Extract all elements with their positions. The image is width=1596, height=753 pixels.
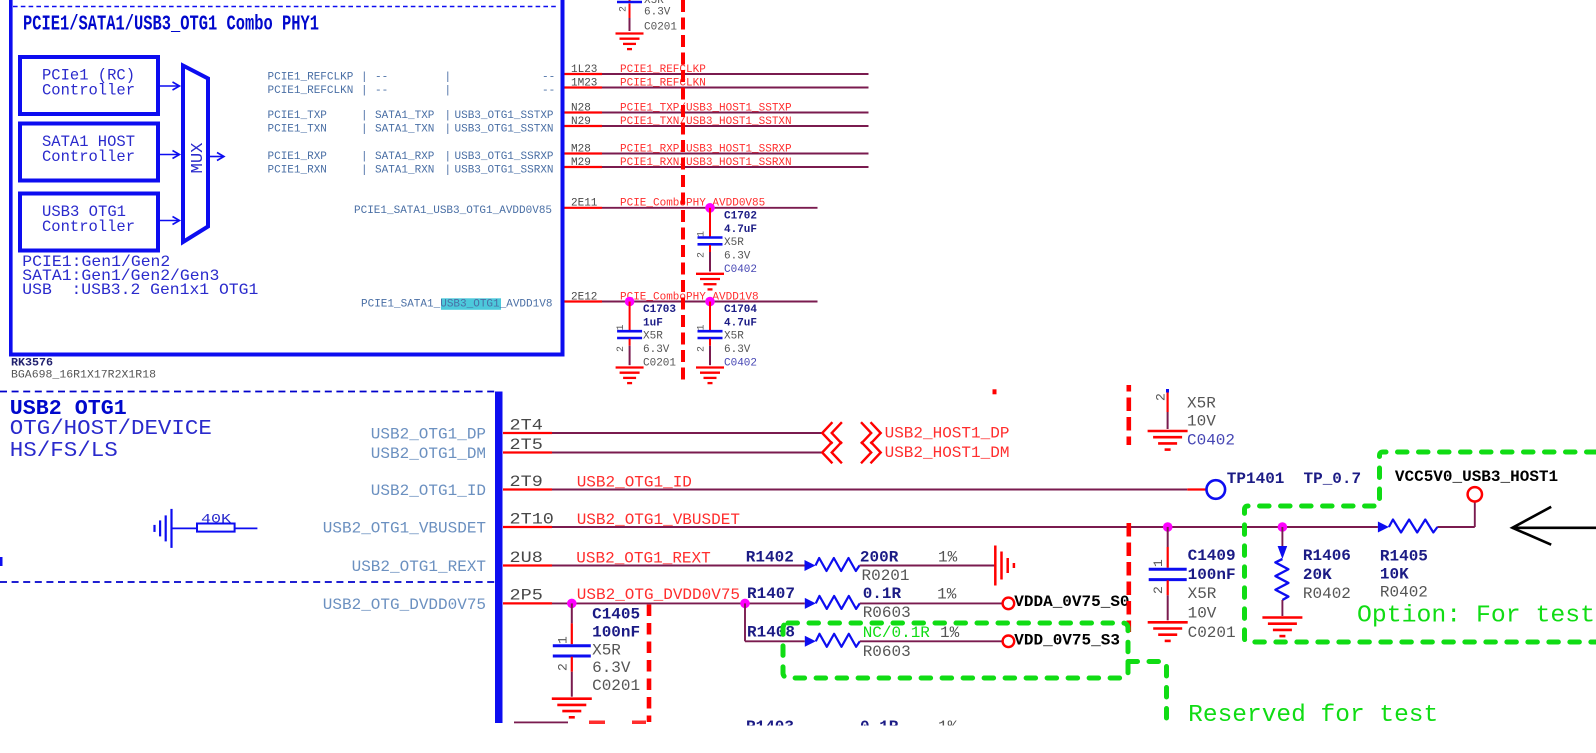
svg-text:PCIE1_SATA1_USB3_OTG1_AVDD0V85: PCIE1_SATA1_USB3_OTG1_AVDD0V85: [354, 205, 552, 217]
wire branch to R1408: [744, 603, 746, 641]
pin N28 net PCIE1_TXP/USB3_HOST1_SSTXP: [565, 102, 869, 114]
svg-text:USB3_OTG1_SSRXN: USB3_OTG1_SSRXN: [455, 164, 554, 176]
resistor R1408 NC/0.1R: [745, 634, 1004, 647]
svg-text:C0402: C0402: [724, 357, 757, 369]
svg-text:C0201: C0201: [1188, 624, 1236, 642]
resistor 40K internal: [172, 511, 258, 531]
red dashed separator top right: [1127, 385, 1132, 445]
capacitor C1704 4.7uF: [697, 302, 723, 366]
wire net USB2_OTG_DVDD0V75: [552, 586, 805, 604]
wire net USB2_OTG1_ID: [552, 474, 1206, 492]
svg-text:100nF: 100nF: [1188, 566, 1236, 584]
svg-text:C0402: C0402: [1187, 431, 1235, 449]
red dashed separator line top: [681, 0, 685, 381]
resistor R1407 0.1R: [805, 596, 1004, 609]
svg-text:C0402: C0402: [724, 264, 757, 276]
svg-text:R1402: R1402: [746, 549, 794, 567]
svg-text:C0201: C0201: [643, 357, 676, 369]
svg-text:R1405: R1405: [1380, 548, 1428, 566]
svg-text:1: 1: [556, 636, 571, 644]
svg-text:2U8: 2U8: [510, 549, 543, 567]
svg-text:--: --: [375, 85, 388, 97]
svg-text:R0201: R0201: [862, 567, 910, 585]
svg-text:R0603: R0603: [863, 643, 911, 661]
svg-text:VCC5V0_USB3_HOST1: VCC5V0_USB3_HOST1: [1395, 468, 1558, 486]
offpage connector USB2_HOST1_DP: [822, 422, 1009, 444]
svg-text:1: 1: [1151, 559, 1166, 567]
labels C1405 100nF X5R 6.3V C0201: [592, 606, 640, 696]
svg-text:USB2_OTG1_VBUSDET: USB2_OTG1_VBUSDET: [323, 519, 486, 537]
svg-text:4.7uF: 4.7uF: [724, 317, 757, 329]
svg-text:SATA1_RXP: SATA1_RXP: [375, 151, 435, 163]
ground below C1405: [552, 697, 592, 700]
svg-text:10V: 10V: [1187, 413, 1216, 431]
svg-text:SATA1_TXN: SATA1_TXN: [375, 123, 434, 135]
wire net USB2_HOST1_DM: [552, 452, 823, 454]
wire SATA1 controller to MUX: [158, 151, 180, 159]
svg-text:USB3_OTG1_SSTXN: USB3_OTG1_SSTXN: [455, 123, 554, 135]
wire USB3 controller to MUX: [158, 217, 180, 225]
svg-text:1: 1: [616, 324, 627, 330]
svg-text:R1406: R1406: [1303, 547, 1351, 565]
svg-text:C1702: C1702: [724, 211, 757, 223]
svg-text:X5R: X5R: [1187, 394, 1216, 412]
capacitor C1409 100nF: [1149, 527, 1187, 620]
svg-text:2: 2: [1154, 393, 1169, 401]
svg-text:R0402: R0402: [1380, 584, 1428, 602]
svg-text:C1703: C1703: [643, 304, 676, 316]
svg-text:USB2_HOST1_DP: USB2_HOST1_DP: [885, 424, 1010, 442]
svg-text:PCIE1_REFCLKP: PCIE1_REFCLKP: [268, 71, 354, 83]
svg-text:2: 2: [1151, 586, 1166, 594]
svg-text:C0201: C0201: [592, 677, 640, 695]
pin 1M23 net PCIE1_REFCLKN: [565, 77, 869, 89]
svg-text:TP1401: TP1401: [1227, 470, 1285, 488]
svg-text:1: 1: [697, 231, 708, 237]
svg-text:|: |: [445, 123, 452, 135]
svg-text:10K: 10K: [1380, 566, 1409, 584]
labels R1408 NC/0.1R 1% R0603: [747, 624, 960, 662]
wire MUX output: [208, 153, 224, 161]
pin 2U8 label USB2_OTG1_REXT: [352, 549, 552, 576]
labels C1704 4.7uF X5R 6.3V C0402: [724, 304, 757, 369]
clipped next row slivers: [514, 718, 958, 736]
analog ground rotated at REXT: [995, 546, 1014, 586]
hierarchical port arrow right: [1512, 507, 1596, 545]
power port VDD_0V75_S3: [1003, 632, 1120, 650]
ground below R1406: [1262, 616, 1302, 619]
svg-text:RK3576: RK3576: [11, 358, 53, 370]
ground below partial capacitor: [1148, 430, 1188, 433]
svg-text:6.3V: 6.3V: [724, 344, 751, 356]
svg-text:PCIE1_RXN: PCIE1_RXN: [268, 164, 327, 176]
junction on 2E11 at C1702: [705, 203, 715, 213]
svg-text:6.3V: 6.3V: [643, 344, 670, 356]
svg-text:SATA1_TXP: SATA1_TXP: [375, 110, 435, 122]
svg-text:USB2_OTG1_DP: USB2_OTG1_DP: [371, 425, 486, 443]
svg-text:USB2_OTG_DVDD0V75: USB2_OTG_DVDD0V75: [323, 596, 486, 614]
block PCIe1 (RC) Controller: [20, 57, 158, 114]
ground below C1704: [696, 366, 724, 368]
resistor R1402 200R: [805, 558, 996, 571]
labels C1702 4.7uF X5R 6.3V C0402: [724, 211, 757, 276]
wire net USB2_HOST1_DP: [552, 432, 823, 434]
svg-text:1uF: 1uF: [643, 317, 663, 329]
svg-text:PCIE1/SATA1/USB3_OTG1 Combo PH: PCIE1/SATA1/USB3_OTG1 Combo PHY1: [23, 14, 319, 37]
svg-text:VDDA_0V75_S0: VDDA_0V75_S0: [1014, 593, 1129, 611]
svg-text:1%: 1%: [938, 549, 958, 567]
svg-text:2: 2: [619, 6, 630, 12]
pin 2P5 label USB2_OTG_DVDD0V75: [323, 587, 552, 614]
svg-text:OTG/HOST/DEVICE: OTG/HOST/DEVICE: [10, 418, 212, 441]
svg-text:C1405: C1405: [592, 606, 640, 624]
note PCIE1:Gen1/Gen2 SATA1:Gen1/Gen2/Gen3 USB:USB3.2 Gen1x1 OTG1: [22, 253, 258, 299]
svg-text:2: 2: [697, 252, 708, 258]
svg-text:BGA698_16R1X17R2X1R18: BGA698_16R1X17R2X1R18: [11, 370, 156, 382]
power port VDDA_0V75_S0: [1003, 593, 1130, 611]
svg-text:--: --: [542, 85, 555, 97]
svg-text:200R: 200R: [860, 549, 899, 567]
svg-text:PCIE1_RXP: PCIE1_RXP: [268, 151, 328, 163]
svg-text:USB2_HOST1_DM: USB2_HOST1_DM: [885, 444, 1010, 462]
svg-text:6.3V: 6.3V: [592, 659, 631, 677]
svg-text:Controller: Controller: [42, 82, 135, 100]
svg-text:MUX: MUX: [189, 143, 208, 174]
wire net USB2_OTG1_VBUSDET: [552, 502, 1475, 529]
wire net USB2_OTG1_REXT: [552, 549, 805, 567]
pin M29 net PCIE1_RXN/USB3_HOST1_SSRXN: [565, 157, 869, 169]
svg-text:X5R: X5R: [724, 237, 744, 249]
svg-text:2T5: 2T5: [510, 436, 543, 454]
junction VBUSDET at R1406: [1278, 522, 1288, 532]
pin 2E12 net PCIE_ComboPHY_AVDD1V8: [565, 291, 818, 303]
svg-text:1: 1: [697, 324, 708, 330]
svg-text:|: |: [361, 164, 368, 176]
svg-text:PCIE1_TXN: PCIE1_TXN: [268, 123, 327, 135]
svg-text:2T9: 2T9: [510, 473, 543, 491]
ground below C1703: [616, 366, 644, 368]
pin 2E11 net PCIE_ComboPHY_AVDD0V85: [565, 198, 818, 210]
ground rotated for 40K pulldown: [155, 509, 172, 548]
svg-text:USB :USB3.2 Gen1x1 OTG1: USB :USB3.2 Gen1x1 OTG1: [22, 281, 258, 299]
svg-text:X5R: X5R: [724, 331, 744, 343]
partial capacitor C0402 top right: [1154, 389, 1236, 449]
pin 2T10 label USB2_OTG1_VBUSDET: [323, 510, 554, 537]
labels C1703 1uF X5R 6.3V C0201: [643, 304, 676, 369]
svg-text:Reserved for test: Reserved for test: [1188, 702, 1438, 729]
svg-text:PCIE1_TXP: PCIE1_TXP: [268, 110, 328, 122]
svg-text:2P5: 2P5: [510, 587, 543, 605]
svg-text:SATA1_RXN: SATA1_RXN: [375, 164, 434, 176]
svg-text:|: |: [445, 85, 452, 97]
ground below C1409: [1148, 621, 1188, 624]
labels R1406 20K R0402: [1303, 547, 1351, 603]
pin 2T4 label USB2_OTG1_DP: [371, 416, 552, 443]
power port VCC5V0_USB3_HOST1: [1395, 468, 1558, 501]
svg-text:C0201: C0201: [644, 22, 677, 34]
svg-text:R0402: R0402: [1303, 585, 1351, 603]
svg-text:Controller: Controller: [42, 148, 135, 166]
svg-text:|: |: [361, 85, 368, 97]
svg-text:R0603: R0603: [863, 604, 911, 622]
svg-text:2: 2: [556, 663, 571, 671]
svg-text:|: |: [445, 151, 452, 163]
svg-text:4.7uF: 4.7uF: [724, 224, 757, 236]
svg-text:C1704: C1704: [724, 304, 757, 316]
pin 2T5 label USB2_OTG1_DM: [371, 436, 552, 463]
svg-text:X5R: X5R: [1188, 585, 1217, 603]
green dashed box Option For test: [1245, 452, 1596, 642]
svg-text:R1408: R1408: [747, 624, 795, 642]
red dashed separator mid right: [1127, 523, 1132, 632]
pin M28 net PCIE1_RXP/USB3_HOST1_SSRXP: [565, 143, 869, 155]
junction DVDD0V75 at R1408 branch: [740, 599, 750, 609]
svg-text:USB2_OTG1_REXT: USB2_OTG1_REXT: [352, 558, 486, 576]
offpage connector USB2_HOST1_DM: [822, 442, 1009, 464]
svg-text:VDD_0V75_S3: VDD_0V75_S3: [1014, 632, 1120, 650]
svg-text:|: |: [361, 151, 368, 163]
svg-text:TP_0.7: TP_0.7: [1304, 470, 1362, 488]
svg-text:--: --: [375, 71, 388, 83]
svg-text:PCIE1_SATA1_USB3_OTG1_AVDD1V8: PCIE1_SATA1_USB3_OTG1_AVDD1V8: [361, 299, 552, 311]
chip edge bar USB2 OTG1: [495, 392, 503, 724]
svg-text:|: |: [445, 71, 452, 83]
wire PCIe1 controller to MUX: [158, 82, 180, 90]
resistor R1405 10K: [1378, 522, 1389, 533]
svg-text:|: |: [361, 110, 368, 122]
svg-text:X5R: X5R: [592, 642, 621, 660]
ground below top partial capacitor: [616, 32, 644, 34]
svg-text:USB2_OTG1_ID: USB2_OTG1_ID: [371, 482, 486, 500]
svg-text:USB2_OTG1_DM: USB2_OTG1_DM: [371, 445, 486, 463]
svg-text:R1407: R1407: [747, 585, 795, 603]
svg-text:1%: 1%: [937, 586, 957, 604]
mux signal table: [268, 71, 556, 176]
svg-text:20K: 20K: [1303, 566, 1332, 584]
junction VBUSDET at C1409: [1163, 522, 1173, 532]
svg-text:1%: 1%: [940, 624, 960, 642]
labels R1405 10K R0402: [1380, 548, 1428, 602]
capacitor C1703 1uF: [616, 302, 642, 366]
left edge tick: [0, 557, 3, 566]
pin 2T9 label USB2_OTG1_ID: [371, 473, 552, 500]
red dashed separator at C1405: [647, 605, 652, 723]
block frame USB2 OTG1 dashed: [0, 392, 495, 583]
svg-text:PCIE1_REFCLKN: PCIE1_REFCLKN: [268, 85, 354, 97]
labels R1407 0.1R 1% R0603: [747, 585, 957, 622]
svg-text:2T4: 2T4: [510, 416, 543, 434]
svg-text:USB3_OTG1_SSRXP: USB3_OTG1_SSRXP: [455, 151, 554, 163]
svg-text:NC/0.1R: NC/0.1R: [863, 624, 931, 642]
svg-text:C1409: C1409: [1188, 547, 1236, 565]
svg-text:6.3V: 6.3V: [644, 7, 671, 19]
svg-text:0.1R: 0.1R: [863, 585, 902, 603]
svg-text:--: --: [542, 71, 555, 83]
svg-text:|: |: [361, 71, 368, 83]
mux U-MUX: [183, 66, 208, 243]
testpoint TP1401: [1207, 470, 1362, 499]
junction on 2E12 at C1703: [625, 297, 635, 307]
green dashed box around R1408: [783, 623, 1128, 678]
pin N29 net PCIE1_TXN/USB3_HOST1_SSTXN: [565, 116, 869, 128]
block USB3 OTG1 Controller: [20, 194, 158, 251]
svg-text:10V: 10V: [1188, 604, 1217, 622]
junction on 2E12 at C1704: [705, 297, 715, 307]
svg-text:X5R: X5R: [643, 331, 663, 343]
svg-text:40K: 40K: [201, 511, 231, 526]
svg-text:100nF: 100nF: [592, 624, 640, 642]
svg-text:|: |: [361, 123, 368, 135]
red dash mark top: [993, 389, 997, 394]
svg-text:2T10: 2T10: [510, 510, 554, 528]
labels C1409 100nF X5R 10V C0201: [1188, 547, 1236, 642]
pin 1L23 net PCIE1_REFCLKP: [565, 64, 869, 76]
partial capacitor C0201 at top: [617, 0, 677, 34]
svg-text:HS/FS/LS: HS/FS/LS: [10, 440, 118, 463]
svg-text:2: 2: [616, 346, 627, 352]
junction DVDD0V75 at C1405: [567, 599, 577, 609]
svg-text:|: |: [445, 110, 452, 122]
svg-text:USB3_OTG1_SSTXP: USB3_OTG1_SSTXP: [455, 110, 554, 122]
ground below C1702: [696, 273, 724, 275]
svg-text:2: 2: [697, 346, 708, 352]
green leader to Reserved for test: [1128, 662, 1167, 723]
svg-text:6.3V: 6.3V: [724, 251, 751, 263]
block frame PCIE1/SATA1/USB3_OTG1 Combo PHY1: [9, 0, 565, 357]
labels R1402 200R 1% R0201: [746, 549, 958, 586]
svg-text:|: |: [445, 164, 452, 176]
resistor R1406 20K: [1275, 527, 1288, 616]
highlight USB3_OTG1 of AVDD1V8 label: [441, 298, 501, 310]
capacitor C1405 100nF: [553, 603, 591, 696]
block SATA1 HOST Controller: [20, 124, 158, 181]
svg-text:USB2_OTG_DVDD0V75: USB2_OTG_DVDD0V75: [577, 586, 740, 604]
capacitor C1702 4.7uF: [697, 208, 723, 272]
svg-text:Controller: Controller: [42, 218, 135, 236]
svg-text:Option: For test: Option: For test: [1357, 603, 1595, 630]
